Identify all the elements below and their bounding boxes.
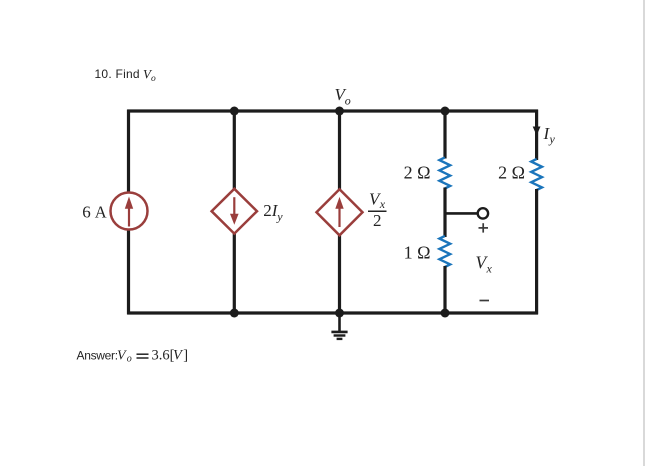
svg-text:2 Ω: 2 Ω [498, 162, 525, 182]
page right edge rule [643, 0, 645, 466]
label Vx/2 fraction [368, 189, 387, 230]
node dot bottom branch 4 [441, 309, 450, 318]
svg-text:A: A [95, 203, 107, 222]
wire: branch 2 lower [233, 233, 236, 314]
node dot top branch 3 (Vo) [335, 107, 344, 116]
svg-text:o: o [345, 93, 351, 107]
wire: top bus [127, 109, 538, 112]
wire: branch 4 between resistors [443, 188, 446, 238]
dependent source Vx/2 diamond [317, 189, 363, 235]
resistor R3 2ohm (right) [531, 159, 542, 190]
svg-text:2: 2 [263, 201, 272, 220]
Iy current arrowhead [533, 127, 541, 136]
node dot top branch 4 [441, 107, 450, 116]
svg-text:o: o [127, 354, 132, 365]
title: 10. Find Vo [95, 67, 157, 85]
node dot bottom branch 2 [230, 309, 239, 318]
svg-text:o: o [151, 74, 156, 84]
wire: left branch lower [127, 230, 130, 315]
svg-text:3.6[: 3.6[ [152, 347, 175, 363]
svg-text:2 Ω: 2 Ω [404, 162, 431, 182]
node label Vo [335, 85, 351, 107]
dependent source 2Iy diamond [212, 189, 257, 234]
svg-text:Answer:: Answer: [77, 348, 118, 362]
label 2Iy [263, 201, 283, 224]
wire: branch 4 below 1ohm resistor [443, 266, 446, 313]
wire: branch 4 segment above 2ohm resistor [443, 111, 446, 159]
svg-text:10. Find: 10. Find [95, 67, 140, 81]
svg-text:y: y [276, 210, 283, 224]
label Vx (voltage across) [476, 253, 493, 276]
wire: left branch upper [127, 110, 130, 193]
wire: branch 3 upper [338, 111, 341, 191]
svg-text:y: y [549, 132, 556, 146]
dependent source Vx/2 arrow (up) [335, 197, 343, 227]
current source I1 arrow [125, 197, 133, 227]
wire: branch 2 upper [233, 111, 236, 190]
wire: right branch upper [535, 110, 538, 160]
svg-text:6: 6 [82, 203, 91, 222]
wire: bottom bus [127, 311, 538, 314]
resistor R1 2ohm (middle) [439, 158, 450, 189]
label + polarity [479, 223, 489, 232]
svg-text:1 Ω: 1 Ω [404, 242, 431, 262]
svg-text:V: V [117, 348, 127, 363]
svg-text:x: x [379, 197, 386, 211]
current source I1 6A circle [111, 193, 148, 230]
svg-text:2: 2 [373, 211, 382, 230]
resistor R2 1ohm [439, 236, 450, 267]
wire: tap to terminal [445, 212, 478, 215]
terminal open circle [478, 208, 488, 218]
wire: branch 3 lower [338, 235, 341, 314]
ground symbol [331, 313, 347, 339]
answer text [77, 347, 189, 364]
node dot top branch 2 [230, 107, 239, 116]
node dot bottom branch 3 [335, 309, 344, 318]
label 6 A [82, 203, 107, 222]
svg-text:x: x [486, 262, 493, 276]
label Iy [543, 124, 556, 146]
svg-text:]: ] [183, 347, 188, 363]
label - polarity [480, 300, 490, 302]
dependent source 2Iy arrow (down) [230, 197, 239, 225]
wire: right branch lower [535, 189, 538, 314]
